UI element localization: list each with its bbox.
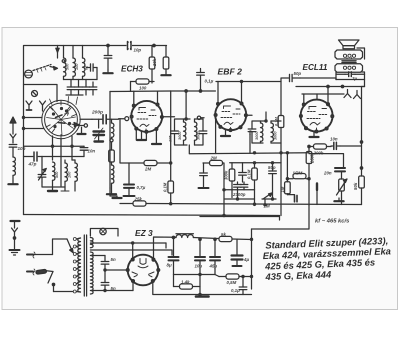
cap 2300p bbox=[234, 182, 248, 199]
earth terminal bbox=[10, 221, 20, 255]
main frame bbox=[24, 46, 167, 215]
wire under coils bbox=[64, 79, 98, 81]
resistor 2M h bbox=[203, 160, 225, 216]
wire coil tops bbox=[57, 52, 59, 58]
resistor 25k bbox=[133, 201, 146, 206]
svg-text:0,1M: 0,1M bbox=[163, 182, 168, 192]
right bus down bbox=[362, 87, 365, 177]
wire row 197.5 bbox=[224, 189, 255, 191]
svg-text:0,1M: 0,1M bbox=[274, 116, 279, 126]
switch bbox=[48, 272, 73, 292]
tap circles bbox=[73, 238, 76, 294]
svg-text:10n: 10n bbox=[88, 149, 96, 154]
tone cap across bbox=[336, 72, 365, 77]
wire bbox=[12, 148, 14, 158]
resistor 2M h left bbox=[120, 160, 172, 165]
cap 0,1u bbox=[239, 275, 247, 294]
svg-text:0,1M: 0,1M bbox=[247, 169, 252, 179]
svg-text:EBF 2: EBF 2 bbox=[218, 67, 243, 77]
tuning lamp circle bbox=[32, 91, 38, 97]
osc ground bbox=[48, 190, 57, 192]
resistor Rb bbox=[161, 46, 170, 76]
winding secondary dots bbox=[343, 66, 355, 69]
svg-text:20n: 20n bbox=[323, 171, 332, 176]
osc coil bank bbox=[53, 162, 55, 191]
svg-text:20k: 20k bbox=[152, 58, 157, 67]
svg-text:ECL11: ECL11 bbox=[303, 63, 328, 72]
transformer primary winding bbox=[76, 238, 80, 292]
winding primary dots bbox=[343, 54, 355, 58]
series cap bbox=[87, 64, 98, 80]
top bus series cap 10p bbox=[127, 42, 133, 50]
HV wires to EZ3 bbox=[92, 255, 105, 257]
main ground bar bbox=[196, 295, 209, 298]
resistor 1/2M h bbox=[286, 174, 310, 180]
fuse bbox=[36, 269, 53, 274]
contact wiper blob bbox=[56, 48, 59, 52]
filter cap 10u bbox=[195, 238, 205, 295]
svg-text:2300p: 2300p bbox=[232, 192, 246, 197]
switch terminal circle bbox=[84, 124, 87, 127]
osc trimmer bbox=[38, 168, 46, 182]
svg-text:3000: 3000 bbox=[274, 131, 278, 140]
antenna coil L2 bbox=[73, 46, 75, 80]
cap 20n bbox=[335, 168, 345, 171]
svg-text:3000: 3000 bbox=[197, 131, 201, 140]
resistor 1M v bbox=[285, 153, 291, 195]
switch wires through bbox=[24, 117, 43, 119]
svg-text:2M: 2M bbox=[210, 156, 217, 161]
svg-text:10n: 10n bbox=[330, 137, 338, 142]
cap 47p series bbox=[24, 152, 43, 161]
resistor 5k bbox=[219, 236, 252, 241]
feedback row bbox=[309, 154, 344, 167]
filter cap 8u bbox=[169, 236, 179, 274]
tube EZ3 bbox=[126, 255, 159, 286]
cap bars bbox=[287, 195, 297, 202]
wire bottom rail bbox=[24, 215, 280, 221]
trimmer pair 1 bbox=[66, 80, 83, 96]
output transformer housing upper bbox=[335, 50, 363, 59]
AVC row bbox=[249, 135, 251, 154]
anode line bbox=[300, 78, 336, 80]
tank bracket bbox=[41, 157, 43, 171]
svg-text:50k: 50k bbox=[353, 182, 358, 190]
svg-text:5n: 5n bbox=[111, 257, 116, 262]
cap 5n upper bbox=[101, 256, 109, 272]
wire row under speaker bbox=[336, 79, 365, 81]
svg-text:8μ: 8μ bbox=[167, 263, 172, 268]
IF2 sideways labels bbox=[255, 131, 278, 140]
resistor 0,5M bbox=[215, 274, 252, 279]
resistor 50k bbox=[359, 176, 365, 188]
wire ECL11 anodes up bbox=[316, 94, 318, 100]
ECL11 top-left stub bbox=[303, 94, 305, 103]
EZ3 top leads bbox=[132, 243, 134, 259]
bus lower corner bbox=[361, 188, 363, 205]
svg-text:5n: 5n bbox=[111, 286, 116, 291]
svg-text:2M: 2M bbox=[144, 167, 151, 172]
filter cap 4u bbox=[232, 240, 243, 267]
antenna Y small 1 bbox=[26, 101, 32, 110]
cap 50p det bbox=[269, 163, 277, 199]
svg-text:10μ: 10μ bbox=[195, 264, 203, 269]
B+ row bbox=[296, 86, 365, 88]
screen feed wire bbox=[170, 91, 172, 181]
IF1 sideways labels bbox=[169, 131, 201, 142]
ECL11 cathode ground bbox=[310, 132, 319, 137]
svg-text:1M: 1M bbox=[280, 186, 285, 192]
row 274.5 bbox=[174, 274, 216, 276]
antenna coil L1 bbox=[62, 46, 66, 80]
resistor det 0,1M on bus bbox=[278, 116, 284, 216]
svg-text:105: 105 bbox=[169, 135, 173, 142]
heater rails bbox=[90, 242, 166, 244]
osc coil labels bbox=[55, 171, 72, 178]
svg-text:0,1μ: 0,1μ bbox=[205, 79, 214, 84]
resistor 100 bbox=[131, 79, 155, 91]
svg-text:50p: 50p bbox=[268, 165, 276, 170]
cap 10n osc bbox=[42, 146, 88, 156]
cathode cap bar bbox=[316, 184, 318, 205]
ground at switch bbox=[78, 127, 86, 134]
svg-text:300k: 300k bbox=[224, 170, 229, 180]
IF2 transformer bbox=[197, 112, 281, 143]
padder cap 200p series bbox=[92, 115, 119, 124]
svg-text:1/2M: 1/2M bbox=[293, 171, 303, 176]
EBF2 cathode ground bbox=[221, 129, 230, 136]
wire avc left bbox=[24, 145, 85, 147]
svg-text:5k: 5k bbox=[221, 232, 226, 237]
coil L-ant bbox=[13, 157, 15, 175]
coil labels bbox=[66, 63, 89, 70]
svg-text:100: 100 bbox=[68, 171, 72, 178]
mains plug upper bbox=[27, 252, 53, 258]
cap 0,7u bbox=[124, 163, 135, 196]
vertical x309 bbox=[308, 147, 310, 152]
svg-text:EZ 3: EZ 3 bbox=[135, 228, 153, 238]
svg-text:100: 100 bbox=[139, 86, 147, 91]
housing lower bbox=[335, 64, 363, 73]
trimmer pair 2 bbox=[82, 80, 97, 96]
speaker side wires bbox=[335, 72, 337, 80]
selector wire bbox=[53, 239, 68, 255]
cap 5n lower bbox=[101, 270, 109, 292]
svg-text:3000: 3000 bbox=[178, 131, 182, 140]
wires mid right bbox=[252, 206, 310, 230]
mains plug lower bbox=[27, 269, 35, 275]
antenna coil L3 bbox=[83, 46, 85, 80]
lead left to 2M row bbox=[119, 119, 121, 163]
shield box EBF2 bbox=[171, 90, 216, 92]
coupling cap 50p bbox=[281, 74, 300, 81]
resistor 2k bbox=[109, 150, 115, 162]
svg-text:0,1μ: 0,1μ bbox=[231, 288, 240, 293]
svg-text:3000: 3000 bbox=[255, 131, 259, 140]
svg-text:kf ~ 465 kc/s: kf ~ 465 kc/s bbox=[315, 219, 350, 225]
dial cord dashed bbox=[33, 65, 51, 71]
node dot bbox=[153, 44, 155, 46]
filter cap 45u bbox=[210, 238, 220, 274]
svg-text:200p: 200p bbox=[91, 110, 103, 116]
band switch S1 bbox=[42, 97, 80, 139]
cap mid bbox=[239, 163, 247, 182]
choke bbox=[172, 234, 218, 239]
shield box ECH3 bbox=[109, 92, 111, 189]
wire 146 row bbox=[340, 145, 362, 147]
osc trimmer big bbox=[94, 119, 105, 141]
ECH3 anode stubs bbox=[133, 91, 135, 104]
resistor 1,4k bbox=[174, 275, 201, 290]
switch leads down bbox=[52, 136, 54, 160]
resistor 200k bbox=[308, 144, 331, 149]
antenna Y small 2 bbox=[40, 101, 46, 111]
resistor 0,1M screen bbox=[168, 181, 174, 193]
tube EBF2 bbox=[214, 99, 247, 131]
capacitor C-ant 10n bbox=[9, 145, 17, 148]
text block bbox=[262, 235, 392, 282]
svg-text:50p: 50p bbox=[294, 71, 302, 76]
core bars bbox=[342, 61, 356, 63]
grid cap terminal bbox=[119, 117, 129, 121]
chassis ground mid bbox=[110, 188, 122, 198]
pot wires bbox=[341, 198, 343, 205]
ground bbox=[8, 181, 17, 184]
EZ3 bottom leads bbox=[132, 282, 134, 290]
secondary top winding bbox=[90, 238, 93, 248]
resistor 300k bbox=[229, 163, 235, 198]
svg-text:45μ: 45μ bbox=[209, 264, 218, 269]
AF pot arrow bbox=[262, 193, 276, 205]
svg-text:0,5M: 0,5M bbox=[227, 280, 237, 285]
osc section coil column x=111 bbox=[110, 119, 114, 150]
wire rail to right bus bbox=[146, 204, 362, 205]
svg-text:500: 500 bbox=[66, 63, 70, 70]
coil lower bbox=[107, 162, 116, 194]
detector row bbox=[230, 162, 281, 164]
wire mid rail bbox=[120, 203, 133, 205]
tube ECH3 bbox=[130, 101, 163, 133]
pointer arrow bbox=[50, 67, 58, 70]
svg-text:25k: 25k bbox=[134, 197, 143, 202]
svg-text:1,4k: 1,4k bbox=[181, 280, 190, 285]
svg-text:10p: 10p bbox=[134, 48, 142, 53]
secondary HV winding bbox=[90, 252, 93, 294]
svg-text:47p: 47p bbox=[28, 162, 37, 167]
resistor 0,1M bbox=[252, 163, 258, 206]
svg-text:2μ: 2μ bbox=[351, 76, 357, 81]
svg-text:4μ: 4μ bbox=[243, 257, 249, 262]
lamp box bbox=[90, 228, 118, 236]
svg-text:0,7μ: 0,7μ bbox=[137, 185, 146, 190]
inner box line bbox=[24, 85, 58, 102]
speaker cone bbox=[339, 40, 360, 49]
transformer core bbox=[84, 235, 86, 296]
cap left bbox=[199, 163, 209, 188]
cap 10n bbox=[331, 142, 340, 149]
AVC cap bbox=[103, 46, 112, 74]
svg-text:500: 500 bbox=[55, 171, 59, 178]
connector chevrons bbox=[344, 90, 351, 98]
EBF2 top stubs bbox=[217, 82, 219, 103]
IF1 transformer bbox=[162, 91, 207, 145]
decoupling cap 0,1u bbox=[197, 69, 205, 93]
tube ECL11 bbox=[300, 100, 334, 133]
resistor Ra bbox=[149, 46, 155, 84]
wiper black bbox=[74, 123, 79, 127]
EBF2 grid AVC drop bbox=[215, 117, 217, 154]
tube leads down bbox=[136, 130, 146, 141]
antenna input arrow bbox=[10, 117, 16, 143]
svg-text:100: 100 bbox=[75, 63, 79, 70]
volume pot bbox=[337, 172, 348, 198]
dial drum bbox=[25, 70, 33, 78]
wire bbox=[12, 176, 14, 182]
svg-text:ECH3: ECH3 bbox=[121, 65, 143, 74]
